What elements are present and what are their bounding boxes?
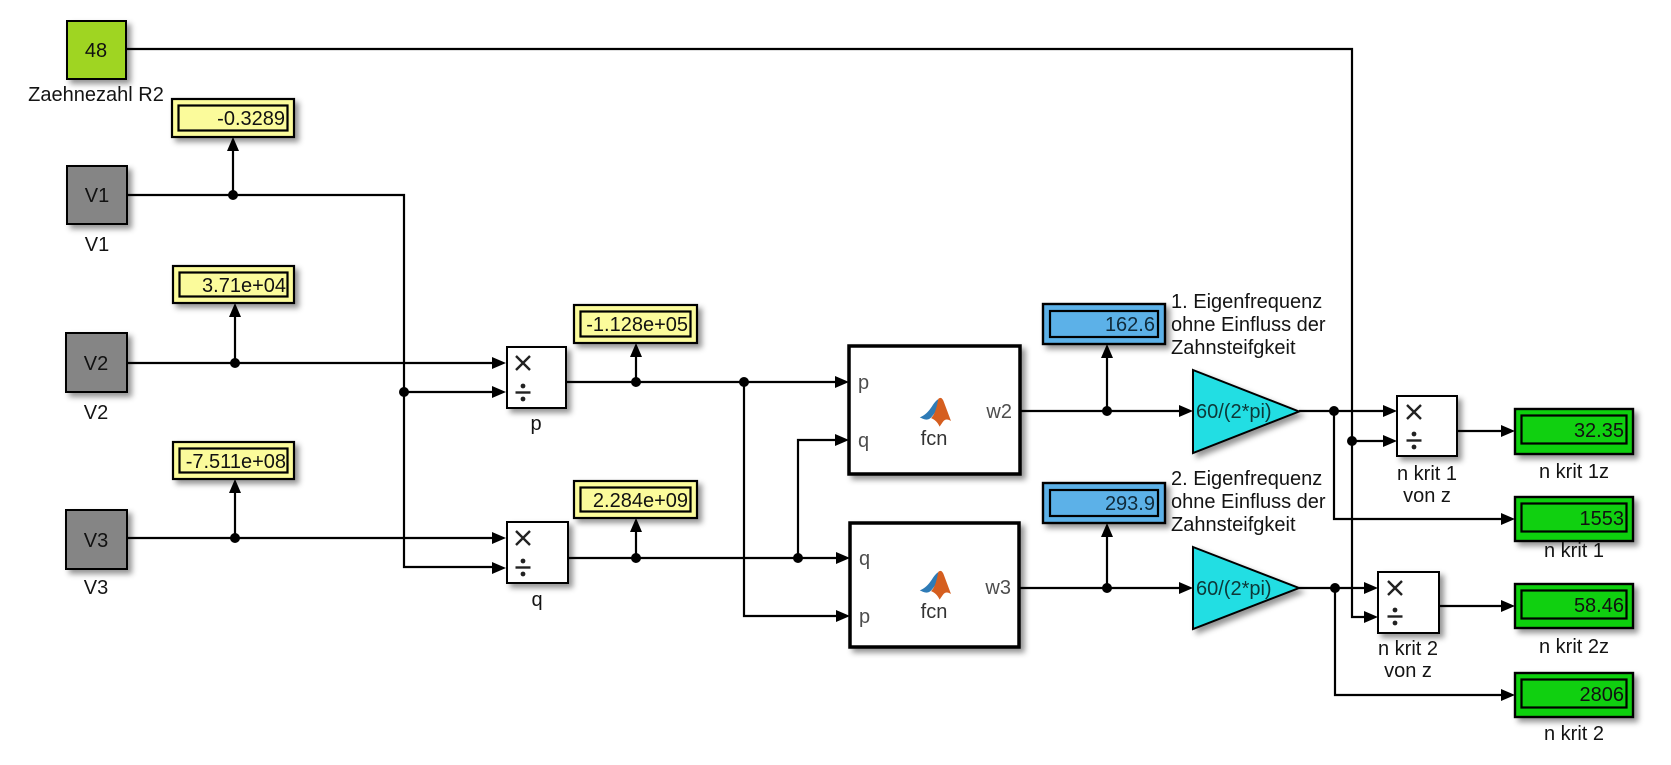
junction w3 at display tap — [1102, 583, 1112, 593]
product block n krit 2 von z — [1378, 572, 1439, 633]
display 293.9 — [1043, 483, 1165, 523]
wire w3 to gain 2 — [1019, 582, 1193, 594]
junction w2 at display tap — [1102, 406, 1112, 416]
svg-text:fcn: fcn — [921, 428, 948, 450]
display -7.511e+08 — [173, 442, 294, 479]
svg-text:32.35: 32.35 — [1574, 420, 1624, 442]
display 3.71e+04 — [173, 266, 294, 303]
wire w3 tap to display 293.9 — [1101, 523, 1113, 588]
wire p output to fcn blocks — [566, 376, 850, 622]
svg-text:2. Eigenfrequenz: 2. Eigenfrequenz — [1171, 468, 1322, 490]
svg-text:n krit 1: n krit 1 — [1544, 540, 1604, 562]
display 162.6 — [1043, 304, 1165, 344]
svg-text:Zaehnezahl R2: Zaehnezahl R2 — [28, 84, 164, 106]
svg-text:q: q — [531, 589, 542, 611]
svg-text:von z: von z — [1384, 660, 1432, 682]
svg-text:-1.128e+05: -1.128e+05 — [586, 314, 688, 336]
display 2.284e+09 — [574, 481, 697, 518]
svg-text:ohne Einfluss der: ohne Einfluss der — [1171, 491, 1326, 513]
svg-text:48: 48 — [85, 40, 107, 62]
annotation 2. Eigenfrequenz — [1171, 468, 1326, 536]
wire V2 to product p — [127, 357, 506, 369]
svg-text:Zahnsteifgkeit: Zahnsteifgkeit — [1171, 337, 1296, 359]
wire w2 to gain 1 — [1020, 405, 1193, 417]
junction gain1 output — [1329, 406, 1339, 416]
wire p tap to display -1.128e+05 — [630, 343, 642, 382]
product block n krit 1 von z — [1397, 396, 1457, 456]
label n krit 1 von z — [1397, 463, 1457, 507]
svg-text:60/(2*pi): 60/(2*pi) — [1196, 578, 1272, 600]
wire q output to fcn blocks — [568, 434, 850, 564]
svg-text:V3: V3 — [84, 530, 108, 552]
svg-text:von z: von z — [1403, 485, 1451, 507]
wire n krit 2 to display 58.46 — [1439, 600, 1515, 612]
wire V1 to p and q dividers — [127, 195, 506, 574]
svg-text:-0.3289: -0.3289 — [217, 108, 285, 130]
wire gain2 to n krit 2 product — [1299, 582, 1515, 701]
svg-text:2.284e+09: 2.284e+09 — [593, 490, 688, 512]
svg-text:162.6: 162.6 — [1105, 314, 1155, 336]
junction q output split — [793, 553, 803, 563]
wire V3 tap to display -7.511e+08 — [229, 479, 241, 538]
junction p output at display tap — [631, 377, 641, 387]
display 2806 — [1515, 673, 1633, 717]
svg-text:1553: 1553 — [1580, 508, 1625, 530]
constant block 48 (Zaehnezahl R2) — [67, 21, 126, 79]
svg-text:n krit 2: n krit 2 — [1544, 723, 1604, 745]
gain block 60/(2*pi) upper — [1193, 370, 1299, 453]
MATLAB function block fcn w3 — [850, 523, 1019, 647]
svg-text:60/(2*pi): 60/(2*pi) — [1196, 401, 1272, 423]
svg-text:3.71e+04: 3.71e+04 — [202, 275, 286, 297]
product block p — [507, 347, 566, 408]
source block V3 — [66, 510, 127, 569]
svg-text:n krit 2z: n krit 2z — [1539, 636, 1609, 658]
svg-text:2806: 2806 — [1580, 684, 1625, 706]
display -0.3289 — [172, 99, 294, 137]
svg-text:q: q — [858, 430, 869, 452]
display 58.46 — [1515, 584, 1633, 628]
svg-text:q: q — [859, 548, 870, 570]
svg-text:w2: w2 — [985, 401, 1012, 423]
svg-text:1. Eigenfrequenz: 1. Eigenfrequenz — [1171, 291, 1322, 313]
display -1.128e+05 — [574, 305, 697, 343]
gain block 60/(2*pi) lower — [1193, 547, 1299, 629]
svg-text:n krit 1z: n krit 1z — [1539, 461, 1609, 483]
svg-text:p: p — [530, 413, 541, 435]
display 32.35 — [1515, 409, 1633, 454]
svg-text:V1: V1 — [85, 185, 109, 207]
svg-text:Zahnsteifgkeit: Zahnsteifgkeit — [1171, 514, 1296, 536]
source block V2 — [66, 333, 127, 392]
display 1553 — [1515, 497, 1633, 541]
wire V1 tap to display -0.3289 — [227, 137, 239, 195]
svg-text:p: p — [858, 372, 869, 394]
junction p output split — [739, 377, 749, 387]
MATLAB function block fcn w2 — [849, 346, 1020, 474]
wire w2 tap to display 162.6 — [1101, 344, 1113, 411]
annotation 1. Eigenfrequenz — [1171, 291, 1326, 359]
svg-text:V3: V3 — [84, 577, 108, 599]
svg-text:n krit 2: n krit 2 — [1378, 638, 1438, 660]
svg-text:fcn: fcn — [921, 601, 948, 623]
junction V3 wire at display tap — [230, 533, 240, 543]
svg-text:p: p — [859, 606, 870, 628]
junction V1 wire at p divider — [399, 387, 409, 397]
wire V2 tap to display 3.71e+04 — [229, 303, 241, 363]
svg-text:-7.511e+08: -7.511e+08 — [186, 451, 286, 473]
svg-text:58.46: 58.46 — [1574, 595, 1624, 617]
source block V1 — [67, 166, 127, 224]
junction gain2 output — [1330, 583, 1340, 593]
svg-text:V1: V1 — [85, 234, 109, 256]
svg-text:n krit 1: n krit 1 — [1397, 463, 1457, 485]
junction q output at display tap — [631, 553, 641, 563]
junction V1 wire at display tap — [228, 190, 238, 200]
wire n krit 1 to display 32.35 — [1457, 425, 1515, 437]
junction on 48 wire at n krit 1 divider — [1347, 436, 1357, 446]
label n krit 2 von z — [1378, 638, 1438, 682]
svg-text:V2: V2 — [84, 353, 108, 375]
wire V3 to product q — [127, 532, 506, 544]
svg-text:293.9: 293.9 — [1105, 493, 1155, 515]
wire from 48 to n krit dividers — [126, 49, 1397, 623]
wire gain1 to n krit 1 product — [1299, 405, 1515, 525]
svg-text:w3: w3 — [984, 577, 1011, 599]
junction V2 wire at display tap — [230, 358, 240, 368]
svg-text:ohne Einfluss der: ohne Einfluss der — [1171, 314, 1326, 336]
product block q — [507, 522, 568, 583]
wire q tap to display 2.284e+09 — [630, 518, 642, 558]
svg-text:V2: V2 — [84, 402, 108, 424]
